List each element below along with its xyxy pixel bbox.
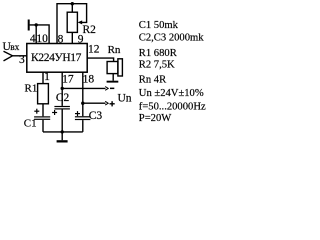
svg-text:Rn 4R: Rn 4R (139, 75, 167, 86)
svg-text:1: 1 (44, 71, 50, 83)
svg-text:8: 8 (58, 33, 64, 45)
svg-text:P=20W: P=20W (139, 113, 171, 124)
svg-text:вх: вх (10, 43, 19, 53)
svg-text:f=50...20000Hz: f=50...20000Hz (139, 101, 206, 112)
svg-text:4: 4 (30, 33, 36, 45)
svg-text:10: 10 (36, 33, 48, 45)
svg-text:R1 680R: R1 680R (139, 48, 178, 59)
svg-text:R1: R1 (25, 82, 38, 94)
svg-text:12: 12 (88, 43, 100, 55)
svg-text:Un ±24V±10%: Un ±24V±10% (139, 88, 204, 99)
svg-text:C1 50mk: C1 50mk (139, 20, 179, 31)
svg-text:3: 3 (19, 54, 25, 66)
svg-text:C3: C3 (89, 110, 103, 122)
svg-text:Rn: Rn (108, 44, 121, 56)
svg-text:Un: Un (118, 92, 132, 104)
svg-text:C2,C3 2000mk: C2,C3 2000mk (139, 32, 204, 43)
svg-text:C1: C1 (24, 118, 37, 130)
svg-text:R2: R2 (83, 24, 97, 36)
svg-text:R2 7,5K: R2 7,5K (139, 60, 175, 71)
svg-text:17: 17 (62, 73, 74, 85)
svg-text:К224УН17: К224УН17 (31, 52, 82, 64)
svg-text:C2: C2 (56, 92, 70, 104)
svg-text:18: 18 (83, 73, 95, 85)
